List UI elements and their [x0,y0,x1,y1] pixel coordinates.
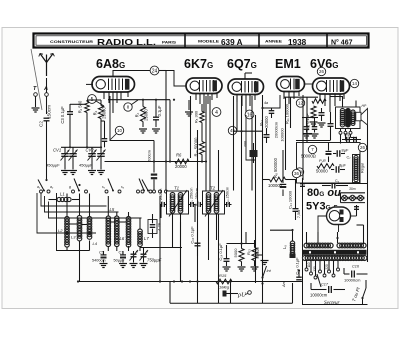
circled pin 8 (6A8) [124,103,132,111]
IF T1 trim arrow [169,190,187,217]
wire grid bus 6A8 [108,99,170,101]
svg-text:R15: R15 [219,273,227,278]
ground under T [32,107,40,109]
resistor R4 25000 [140,107,145,122]
header divider 3 [326,34,328,47]
output transformer box [336,107,361,129]
ground C11a [303,133,311,135]
capacitor C2 150cm [44,117,50,119]
wire bus x170 [169,100,171,162]
wire bottom verticals [169,282,171,304]
junction dots [45,179,47,181]
circled 26 [358,143,366,151]
coil L5 [106,216,111,221]
wire 6Q7 verticals [233,96,235,191]
power box [303,184,368,305]
ground CV1b [69,170,77,172]
6A8 pins down [103,92,105,99]
wire OT down [340,134,342,143]
circled pin 14 [350,79,358,87]
svg-text:C₈ 250cm: C₈ 250cm [159,189,163,206]
svg-text:130: 130 [313,266,317,272]
svg-text:a₁: a₁ [37,185,40,189]
svg-text:ANNEE: ANNEE [265,39,282,44]
capacitor C15 bottom [331,183,333,189]
terminal A [45,93,49,97]
wire T1 left down [172,214,174,248]
PU jack [223,291,227,297]
wire right bus [367,125,369,262]
svg-text:C16: C16 [352,265,360,269]
svg-text:L3: L3 [71,235,76,240]
6V6 pins down [319,94,321,101]
wire osc bottom [140,247,182,249]
svg-text:R₁ 500: R₁ 500 [78,100,83,113]
ground C5 [100,263,108,265]
svg-text:30µ: 30µ [344,133,350,137]
volume pot wires [246,115,256,160]
wire band nest 3 [49,202,142,219]
padder box [148,220,157,234]
IF T1 windings [170,193,175,198]
terminal T [34,93,38,97]
coil L4 [87,217,92,222]
svg-text:C17: C17 [321,283,329,287]
transformer taps [306,261,308,269]
wire coil bridges L5L6 [111,221,115,223]
resistor R1 [85,102,90,113]
svg-text:R₁₃: R₁₃ [246,249,251,255]
ground trimmer1 [130,263,138,265]
IF T2 caps [197,202,199,207]
switch arm a1 [38,180,44,191]
ground CV2b [97,170,105,172]
trimmer 750uuF [131,253,137,255]
svg-text:T2: T2 [210,186,216,191]
svg-text:5400cm: 5400cm [92,259,106,263]
wire band nest 2 [45,196,119,212]
svg-text:10: 10 [117,128,122,133]
svg-text:C2: C2 [39,121,44,127]
svg-text:450µµF: 450µµF [79,163,93,168]
svg-text:0.1µF: 0.1µF [157,105,162,116]
ground C1 [119,263,127,265]
svg-text:4a: 4a [264,101,268,105]
tube 6V6G envelope [313,78,350,94]
svg-text:s₁: s₁ [102,185,105,189]
wire heater right [262,284,264,304]
wire EM1 top bus [284,96,318,98]
switch contacts c [105,190,108,193]
circled pin 10 [115,126,123,134]
coil L1 [57,197,61,201]
PU terminal 2 [248,291,252,295]
fold line [31,49,42,110]
switch arm b [74,179,79,191]
svg-text:5000: 5000 [233,248,238,258]
wire coil bridges L2L3 [69,223,77,225]
header divider 1 [184,34,186,47]
svg-text:L2: L2 [58,228,63,233]
svg-text:R₁₁ 100000: R₁₁ 100000 [285,103,290,124]
svg-text:220: 220 [325,264,329,270]
wire bus x218 [218,150,220,304]
coil L6 [115,216,120,221]
svg-text:L6: L6 [120,236,125,241]
svg-text:8µF: 8µF [339,163,347,168]
capacitor 10000 blk [250,150,258,157]
capacitor filter 8uF [336,150,338,157]
svg-text:20000: 20000 [264,116,269,128]
svg-text:C₁₂ 250cm: C₁₂ 250cm [195,188,199,206]
power transformer leads top [306,232,308,244]
svg-text:80G ou: 80G ou [307,187,341,199]
rectifier anodes [340,210,344,215]
svg-text:R6: R6 [176,153,182,158]
antenna [40,54,47,77]
svg-text:RADIO L.L.: RADIO L.L. [97,38,156,47]
wire band nest 4 [37,193,96,233]
rectifier 5Y3 envelope [327,207,351,225]
svg-text:C₉: C₉ [335,179,340,183]
ground R4 [139,128,147,130]
circled 36 [292,169,300,177]
svg-text:ρU: ρU [237,292,247,299]
rectifier wires [338,225,340,233]
wire EM1 bus [262,255,264,284]
svg-text:110: 110 [307,262,311,267]
tube EM1 envelope [277,77,305,92]
svg-text:1938: 1938 [288,38,307,47]
svg-text:MODELE: MODELE [198,39,219,44]
6K7 pins down [195,94,197,101]
EM1 wire right [305,83,313,85]
wire bus x206-210 [205,96,207,191]
svg-text:C₉ 250cm: C₉ 250cm [190,188,194,205]
svg-text:Am: Am [281,280,286,288]
resistor R9 100000 [270,177,286,182]
header outer box [34,34,369,48]
svg-text:L1: L1 [60,192,65,197]
wire 6V6 links [303,133,312,135]
wire band nest 1 [41,193,107,206]
pilot lamps wires [341,192,366,194]
power box top [303,183,368,185]
pilot lamp 3 [358,195,363,200]
svg-text:R₁₀ 50000: R₁₀ 50000 [194,137,199,157]
resistor R6 20000 [175,159,189,164]
circled pin 24 [150,66,159,75]
circled pin 26a [317,67,325,75]
wire bus x190 [190,96,192,158]
svg-text:24: 24 [152,68,158,74]
svg-text:26: 26 [360,145,365,150]
resistor R15 1Meg [216,279,232,284]
svg-text:C₁₄ 0.1µF: C₁₄ 0.1µF [218,243,223,261]
svg-text:150cm: 150cm [47,105,52,119]
tube 6A8G envelope [92,77,135,93]
svg-text:L₉: L₉ [282,245,287,249]
tube 6K7G envelope [186,78,222,94]
header divider 2 [258,34,260,47]
wire bus x166 [165,100,167,191]
circled pin 12 [296,99,304,107]
resistor R3 25000 [98,106,103,119]
capacitor C4 cluster [102,138,108,140]
svg-text:PARIS: PARIS [162,40,176,45]
circled 7 [308,145,316,153]
power transformer secondary [303,256,308,261]
switch contacts a [40,190,43,193]
svg-text:4-29: 4-29 [158,223,162,231]
ground trimmer2 [140,263,148,265]
wire af bus [227,243,255,245]
wire bottom bus 1 [78,281,303,283]
wire 6A8 osc [110,96,154,141]
wire coilbox bottom [67,250,90,252]
svg-text:20000: 20000 [175,164,187,169]
ground C 0.1uF [152,128,160,130]
wire x285 down [285,97,287,170]
caps top right [346,137,348,143]
6A8 grid pin left [86,83,93,85]
tube 6Q7G envelope [228,79,264,95]
capacitor C3 [67,111,73,113]
capacitor EM1 grid [269,110,275,112]
svg-text:C₁₃ 250cm: C₁₃ 250cm [226,187,230,205]
mains switch arm [317,274,321,287]
output transformer windings [340,109,344,113]
svg-text:100000: 100000 [268,183,283,188]
svg-text:50000: 50000 [316,169,328,174]
6Q7 grid top cap [244,73,246,79]
svg-text:R₈ 500000: R₈ 500000 [273,157,278,178]
svg-text:7,5Ω: 7,5Ω [297,210,301,218]
electrolytic block [353,155,360,183]
coil L7 [138,229,143,234]
wire CV bus [61,146,101,148]
svg-text:10000cm: 10000cm [344,278,361,283]
switch arm d [139,179,144,191]
svg-text:4: 4 [215,110,218,116]
IF T2 trim arrow [205,190,223,217]
svg-text:30m: 30m [349,187,356,191]
svg-text:HP: HP [362,104,367,108]
svg-text:100000: 100000 [280,128,285,142]
resistor 6V6 grid cluster [312,99,326,104]
IF T1 caps [161,202,163,207]
power transformer primary [304,243,309,248]
svg-text:CV1: CV1 [53,148,61,153]
wire bus x154 [153,141,155,173]
capacitor filter 1 [326,150,332,152]
svg-text:R₅ 300: R₅ 300 [194,110,199,123]
header inner line [36,36,367,45]
svg-text:14: 14 [352,81,357,86]
wire OT top [342,96,344,107]
wire bottom bus 2 [170,302,293,304]
circled pin 45 [228,126,236,134]
pilot lamp 1 [342,195,347,200]
ground CV1a [61,170,69,172]
svg-text:Secteur: Secteur [324,300,341,306]
svg-text:20000cm: 20000cm [274,121,279,138]
svg-text:N° 467: N° 467 [331,39,353,47]
svg-text:25000: 25000 [144,109,149,121]
wire y131 bus [234,130,263,132]
wire R1 top bus [87,99,101,101]
svg-text:600cm: 600cm [147,149,152,162]
svg-text:R₃: R₃ [93,110,98,115]
circled pin 5 (6A8) [88,95,97,104]
pilot lamp 2 [350,195,355,200]
EM1 pins down [283,92,285,100]
small caps 36 [300,183,305,185]
svg-text:26: 26 [319,69,324,74]
capacitor C8uF b [335,166,337,173]
svg-text:25000: 25000 [102,107,107,119]
svg-text:A: A [43,86,48,92]
switch T [363,288,367,304]
svg-text:L5: L5 [110,207,115,212]
OT terminals [339,131,342,134]
wire mid bus y160 [105,161,208,163]
trimmer CV2 [88,153,96,155]
circled 18 [295,168,303,176]
wire T2 right down [216,214,218,240]
svg-text:45: 45 [230,128,235,133]
switch contacts d [137,190,140,193]
svg-text:C3 0.1µF: C3 0.1µF [60,106,65,124]
svg-text:50000: 50000 [255,247,260,259]
switch mid [142,180,148,191]
6Q7 pins down [236,95,238,103]
svg-text:Régul: Régul [361,163,365,173]
svg-text:CONSTRUCTEUR: CONSTRUCTEUR [50,39,93,44]
switch arm c [108,179,113,191]
switch contacts b [72,190,75,193]
svg-text:C₇: C₇ [347,156,352,160]
resistor R11 [290,97,292,128]
svg-text:EM1: EM1 [275,57,301,71]
ground C11b [311,133,319,135]
tap terminals [305,268,308,271]
wire T2 left down [208,214,210,260]
svg-text:50µµF: 50µµF [114,259,126,263]
svg-text:10000cm: 10000cm [310,293,328,298]
coil L2 [65,217,70,222]
svg-text:750µµF: 750µµF [147,258,162,263]
svg-text:450µµF: 450µµF [46,163,60,168]
resistor R 50000 [317,164,334,169]
wire T1 right down [180,214,182,282]
wire bus x197 [197,130,199,304]
svg-text:C₁₀ 0.1µF: C₁₀ 0.1µF [190,226,195,244]
wire bus x182 [180,222,182,282]
svg-text:8µF: 8µF [342,148,350,153]
ground CV2a [88,170,96,172]
circled pin 16 [245,110,254,119]
svg-text:L4: L4 [93,241,98,246]
ground R5 [185,111,193,113]
svg-text:36: 36 [294,171,299,176]
IF T2 windings [206,193,211,198]
speaker [356,112,361,121]
svg-text:400: 400 [244,141,248,147]
coil L6b [126,217,131,222]
svg-text:R₄: R₄ [135,112,140,117]
wire rect to transformer [337,232,339,243]
coil L3 [77,216,82,221]
svg-text:C₁₄ 10000: C₁₄ 10000 [288,190,293,209]
switch Int [263,266,267,278]
trimmer CV1 [61,153,69,155]
6K7 grid wire [166,71,186,87]
svg-text:L7: L7 [144,236,149,241]
6A8 top cap wire [112,70,114,77]
wire det bus [255,115,257,283]
svg-text:1Még: 1Még [219,285,230,290]
svg-text:639 A: 639 A [221,38,243,47]
IF transformer T2 box [203,191,225,214]
circled pin 4 (6K7) [212,108,221,117]
power transformer core [303,250,367,255]
wire antenna branch [69,104,71,112]
svg-text:g: g [69,185,71,189]
IF transformer T1 box [167,191,189,214]
svg-text:T1: T1 [174,186,180,191]
svg-text:P₂R: P₂R [319,159,326,163]
capacitor C 0.1uF [153,116,159,118]
wire EM1 pins spread [263,95,281,108]
filter box [297,143,361,184]
capacitor c 6V6 [328,123,334,125]
wire bus x160 [159,196,161,282]
svg-text:50000Ω: 50000Ω [301,154,316,159]
ground mid [261,260,269,262]
